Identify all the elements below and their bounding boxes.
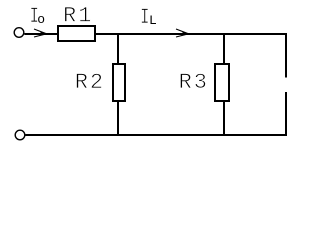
terminal T2 (bottom-left return terminal) — [15, 130, 25, 140]
wire node B down to resistor R3 — [223, 33, 225, 65]
arrow Io (current direction arrow) — [34, 29, 47, 37]
arrow IL (current direction arrow) — [176, 29, 189, 37]
wire node A down to resistor R2 — [117, 33, 119, 65]
wire right branch upper (open load terminal, upper segment) — [285, 33, 287, 78]
resistor R1 (horizontal) — [58, 26, 95, 41]
svg-text:R2: R2 — [75, 70, 105, 95]
svg-text:R1: R1 — [63, 4, 93, 29]
svg-text:R3: R3 — [179, 70, 209, 95]
wire top-left: terminal T1 to resistor R1 — [24, 33, 58, 35]
resistor R3 (vertical) — [215, 64, 229, 101]
wire resistor R3 to bottom wire — [223, 101, 225, 137]
wire bottom: terminal T2 to right branch — [25, 134, 287, 136]
svg-text:o: o — [37, 12, 45, 27]
svg-text:L: L — [149, 13, 157, 28]
wire top: resistor R1 to node A and node B and right branch — [94, 33, 287, 35]
terminal T1 (top-left input terminal) — [14, 28, 24, 38]
resistor R2 (vertical) — [113, 64, 125, 101]
wire resistor R2 to bottom wire — [117, 101, 119, 137]
wire right branch lower (open load terminal, lower segment) — [285, 92, 287, 136]
